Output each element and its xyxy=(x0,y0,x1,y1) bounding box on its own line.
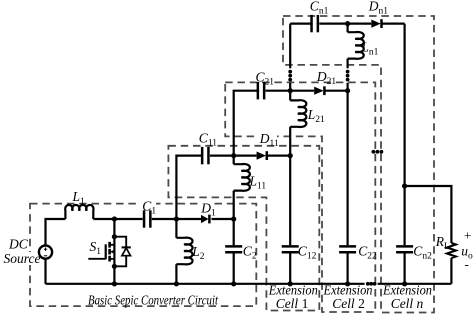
wire L11 to node C xyxy=(233,191,235,219)
wire node G down to C22 xyxy=(347,91,349,246)
wire C11 to node D xyxy=(210,155,257,157)
wire node B up to cell1 row xyxy=(176,156,201,219)
node D xyxy=(231,153,236,158)
node E xyxy=(288,153,293,158)
wire node A to S1 drain xyxy=(113,219,115,237)
wire C22 to rail xyxy=(347,253,349,283)
S1 drain junction xyxy=(112,234,117,239)
diode D21 xyxy=(314,87,323,95)
wire node E down to C12 xyxy=(289,156,291,246)
inductor Ln1 xyxy=(348,32,364,59)
output node xyxy=(402,183,407,188)
svg-text:DC: DC xyxy=(8,237,29,252)
wire node C down to C2 xyxy=(233,219,235,245)
svg-text:+: + xyxy=(464,228,471,243)
wire C2 to rail xyxy=(233,253,235,283)
capacitor C12 xyxy=(282,245,299,248)
wire cell-n row left xyxy=(290,23,311,25)
wire C12 to rail xyxy=(289,253,291,283)
capacitor C2 xyxy=(225,245,242,248)
wire cell-n left: corner down toward node F (dotted continuation) xyxy=(289,24,291,69)
S1 body diode xyxy=(114,237,130,267)
DC source - mark xyxy=(44,255,47,257)
DC source + mark xyxy=(44,248,47,251)
wire node D down to L11 xyxy=(233,156,235,165)
DC source V1 circle xyxy=(39,246,52,259)
wire L1 to C1 xyxy=(93,218,142,220)
capacitor Cn1 xyxy=(310,15,313,32)
wire D11 to node E xyxy=(267,155,290,157)
wire C21 to node F xyxy=(266,90,315,92)
node C xyxy=(231,216,236,221)
wire D1 to node C xyxy=(212,218,234,220)
svg-text:Cell 1: Cell 1 xyxy=(276,296,309,311)
dashed box: Extension Cell 2 xyxy=(225,82,375,312)
wire Ln1 toward node G (dotted continuation) xyxy=(347,59,349,69)
wire node H down to Ln1 xyxy=(347,24,349,33)
dashed box: Extension Cell 1 xyxy=(168,146,319,311)
wire C1 to node B xyxy=(152,218,201,220)
wire node B down to L2 xyxy=(175,219,177,238)
node A (S1 drain) xyxy=(112,216,117,221)
wire S1 source to rail xyxy=(113,266,115,284)
inductor L1 xyxy=(65,205,93,219)
label backgrounds xyxy=(64,192,92,202)
node G xyxy=(345,88,350,93)
node H xyxy=(345,21,350,26)
wire input-left: source top lead and corner to L1 xyxy=(46,219,66,246)
rail ellipsis dots xyxy=(366,282,370,286)
rail junctions xyxy=(112,281,117,286)
capacitor C1 xyxy=(143,210,146,227)
diode Dn1 xyxy=(371,20,380,28)
svg-text:Cell n: Cell n xyxy=(391,296,424,311)
dashed box: Basic Sepic Converter Circuit xyxy=(30,204,256,307)
wire to load RL xyxy=(405,186,452,243)
resistor RL xyxy=(447,243,456,258)
node B xyxy=(174,216,179,221)
wire Cn1 to node H xyxy=(319,23,371,25)
wire output vertical from Dn1 xyxy=(404,24,406,246)
wire source bottom lead xyxy=(44,259,46,284)
wire L21 to node E xyxy=(289,127,291,156)
node F xyxy=(288,88,293,93)
svg-text:Cell 2: Cell 2 xyxy=(332,296,365,311)
ellipsis between cells xyxy=(372,150,376,154)
wire RL to rail xyxy=(450,258,452,284)
S1 source junction xyxy=(112,264,117,269)
wire node D up to cell2 row xyxy=(234,91,258,156)
capacitor Cn2 xyxy=(396,245,413,248)
inductor L2 xyxy=(176,238,192,265)
wire Dn1 to output corner xyxy=(382,23,405,25)
inductor L11 xyxy=(234,164,250,191)
dashed box: Extension Cell n xyxy=(283,16,434,313)
inductor L21 xyxy=(290,100,306,127)
capacitor C21 xyxy=(257,82,260,99)
svg-text:-: - xyxy=(465,257,469,272)
capacitor C22 xyxy=(339,245,356,248)
wire bottom rail xyxy=(46,283,452,285)
wire D21 to node G xyxy=(325,90,348,92)
wire L2 to rail xyxy=(175,264,177,284)
capacitor C11 xyxy=(201,147,204,164)
diode D1 xyxy=(201,215,209,223)
svg-text:Basic Sepic Converter Circuit: Basic Sepic Converter Circuit xyxy=(88,293,219,308)
wire node F down to L21 xyxy=(289,91,291,101)
transistor S1 (MOSFET) xyxy=(88,237,114,267)
wire Cn2 to rail xyxy=(404,253,406,283)
diode D11 xyxy=(257,152,266,160)
svg-text:Source: Source xyxy=(4,251,41,266)
